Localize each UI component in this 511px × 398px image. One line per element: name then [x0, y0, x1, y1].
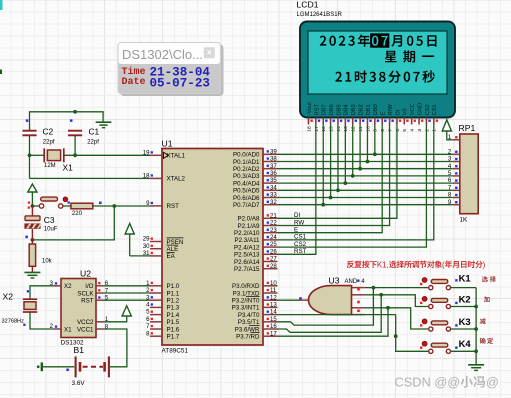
- svg-text:VCC1: VCC1: [77, 326, 94, 333]
- power arrow (reset circuit VCC): [28, 184, 37, 206]
- svg-text:LCD1: LCD1: [297, 0, 319, 10]
- svg-text:1K: 1K: [460, 216, 469, 223]
- svg-text:K1,: K1,: [377, 260, 389, 269]
- svg-text:VCC: VCC: [410, 103, 416, 115]
- pushbutton K3: [420, 316, 471, 331]
- node marker C3: [25, 236, 28, 239]
- wire LCD DI pin to P2.0 row: [278, 125, 397, 219]
- wire P3.7 net to K3 and gate input3: [278, 306, 429, 336]
- junction reset node: [31, 204, 35, 208]
- svg-text:P2.7/A15: P2.7/A15: [234, 266, 260, 273]
- svg-text:K3: K3: [459, 316, 471, 327]
- svg-text:Date: Date: [122, 77, 146, 88]
- wire RST feedback down-left: [32, 206, 114, 240]
- svg-text:16: 16: [321, 126, 327, 132]
- watermark: [395, 375, 499, 390]
- svg-text:CS1: CS1: [294, 234, 307, 241]
- junction crystal right: [73, 153, 77, 157]
- node marker C2: [26, 119, 29, 122]
- ground (key bus): [468, 364, 484, 366]
- svg-text:X1: X1: [63, 163, 74, 173]
- svg-text:CS2: CS2: [294, 241, 307, 248]
- svg-text:16: 16: [270, 323, 277, 330]
- svg-text:11: 11: [270, 287, 277, 294]
- svg-text:P3.2/INT0: P3.2/INT0: [232, 298, 260, 305]
- svg-text:DB5: DB5: [336, 104, 342, 115]
- wire LCD R/W pin to P2.1 row: [278, 125, 390, 226]
- svg-text:E: E: [381, 111, 387, 115]
- wire LCD CS1 pin to P2.3 row: [278, 125, 434, 240]
- svg-text:EA: EA: [167, 253, 176, 260]
- power arrow (RP1 common / LCD VCC): [442, 120, 453, 140]
- svg-text:11: 11: [358, 126, 364, 131]
- svg-text:AND: AND: [345, 279, 358, 285]
- svg-text:27: 27: [270, 256, 277, 263]
- svg-text:-Vout: -Vout: [307, 102, 313, 116]
- wire P3.5 net to K1 and gate input1: [278, 286, 429, 325]
- svg-text:DI: DI: [294, 212, 300, 219]
- pushbutton (reset): [32, 197, 71, 208]
- wire LCD E pin to P2.2 row: [278, 125, 383, 233]
- label K2 function: [484, 296, 490, 302]
- svg-text:K1: K1: [459, 272, 471, 283]
- label K3 function: [480, 318, 486, 324]
- U1 left pin stubs, numbers and names: [143, 149, 186, 340]
- node marker 220 right: [99, 202, 102, 205]
- svg-text:P0.3/AD3: P0.3/AD3: [233, 173, 260, 180]
- wire LCD RST pin to U1 P2.6 row (RST net): [278, 125, 316, 255]
- svg-text:36: 36: [270, 170, 277, 177]
- svg-text:RP1: RP1: [459, 123, 476, 133]
- svg-text:29: 29: [143, 236, 150, 243]
- crystal X2 32768Hz: [2, 286, 55, 329]
- node markers reset: [28, 201, 31, 208]
- svg-text:CS1: CS1: [432, 104, 438, 115]
- LCD screen text line1 2023-07-05: [320, 33, 437, 47]
- svg-text:21: 21: [270, 212, 277, 219]
- junction crystal left: [28, 153, 32, 157]
- microcontroller U1 AT89C51: [162, 138, 264, 354]
- svg-text:SCLK: SCLK: [77, 290, 94, 297]
- svg-text:38: 38: [270, 156, 277, 163]
- svg-text:VCC2: VCC2: [77, 319, 94, 326]
- AND gate U3 (4-input, mirrored): [300, 275, 365, 314]
- svg-text:P1.7: P1.7: [167, 334, 180, 341]
- svg-text:33: 33: [270, 192, 277, 199]
- label K4 function: [480, 338, 493, 344]
- svg-text:4: 4: [410, 129, 416, 132]
- svg-text:7: 7: [146, 323, 150, 330]
- svg-text:LGM12641BS1R: LGM12641BS1R: [297, 12, 343, 18]
- svg-text:31: 31: [143, 250, 150, 257]
- svg-text:P2.0/A8: P2.0/A8: [237, 216, 260, 223]
- svg-text:17: 17: [270, 330, 277, 337]
- svg-text:10uF: 10uF: [44, 226, 58, 232]
- svg-text:DI: DI: [395, 109, 401, 115]
- battery B1 3.6V: [37, 345, 109, 387]
- DS1302 clock popup window: [118, 43, 224, 97]
- pushbutton K1: [420, 272, 471, 289]
- svg-text:15: 15: [329, 126, 335, 132]
- wire battery to U2 VCC1: [104, 329, 127, 367]
- svg-text:P1.4: P1.4: [167, 312, 180, 319]
- svg-text:P2.6/A14: P2.6/A14: [234, 259, 260, 266]
- wire P3.4 net to K4 and gate input4: [278, 315, 429, 352]
- svg-text:P0.0/AD0: P0.0/AD0: [233, 152, 260, 159]
- svg-text:X2: X2: [64, 283, 72, 290]
- svg-text:XTAL2: XTAL2: [167, 176, 186, 183]
- label K1 function: [482, 276, 496, 282]
- svg-text:P1.2: P1.2: [167, 298, 180, 305]
- svg-text:22: 22: [270, 220, 277, 227]
- svg-text:C1: C1: [89, 126, 100, 136]
- svg-text:CS2: CS2: [425, 104, 431, 115]
- svg-text:P1.1: P1.1: [167, 290, 180, 297]
- U1 right pin stubs, numbers and names: [232, 148, 278, 340]
- wire key common bus to ground: [451, 288, 479, 365]
- svg-text:P0.7/AD7: P0.7/AD7: [233, 202, 260, 209]
- svg-text:B1: B1: [74, 345, 85, 355]
- svg-text:17: 17: [314, 126, 320, 132]
- svg-text:10: 10: [365, 126, 371, 132]
- svg-text:P1.3: P1.3: [167, 305, 180, 312]
- wire C1 bottom to XTAL1 rail: [74, 135, 76, 155]
- svg-text:DB0: DB0: [373, 104, 379, 115]
- svg-text:DB7: DB7: [322, 104, 328, 115]
- annotation text (press K1 to choose field): [347, 260, 486, 269]
- svg-text:DB1: DB1: [366, 104, 372, 115]
- svg-text:39: 39: [270, 148, 277, 155]
- capacitor C1 22pf: [68, 126, 100, 145]
- svg-text:2: 2: [424, 129, 430, 132]
- svg-text:P2.1/A9: P2.1/A9: [237, 223, 260, 230]
- U2 pin stubs and numbers: [50, 280, 109, 331]
- RP1 pin stubs and numbers: [448, 134, 460, 206]
- LCD LCD1 labels: [297, 0, 343, 18]
- svg-text:37: 37: [270, 163, 277, 170]
- svg-text:): ): [483, 260, 486, 269]
- svg-text:24: 24: [270, 234, 277, 241]
- power arrow (U2 VCC2): [104, 306, 132, 322]
- svg-text:18: 18: [306, 126, 312, 132]
- capacitor C2 22pf: [22, 126, 54, 145]
- wires LCD data pins DB7..DB0 down to P0 rows with junctions: [321, 125, 376, 207]
- svg-text:30: 30: [143, 243, 150, 250]
- svg-text:K4: K4: [459, 338, 472, 349]
- svg-text:DB6: DB6: [329, 104, 335, 115]
- svg-text:14: 14: [336, 126, 342, 132]
- svg-text:23: 23: [270, 227, 277, 234]
- crystal X1 12M: [30, 148, 151, 172]
- wire C2/C1 top rail to ground: [30, 112, 104, 131]
- svg-text:32768Hz: 32768Hz: [2, 319, 25, 325]
- capacitor C3 10uF (electrolytic): [24, 206, 57, 240]
- svg-text:P1.0: P1.0: [167, 283, 180, 290]
- node marker battery: [66, 369, 69, 372]
- svg-text:4: 4: [146, 302, 150, 309]
- wire U1 P3.2 to gate output: [278, 299, 301, 301]
- svg-text:DB2: DB2: [358, 104, 364, 115]
- svg-text:RST: RST: [81, 298, 94, 305]
- wire U2 I/O to U1 P1.0: [104, 285, 151, 287]
- node marker C1: [70, 119, 73, 122]
- net labels DI RW E CS1 CS2 RST: [294, 212, 307, 255]
- RTC U2 DS1302: [61, 268, 97, 346]
- svg-text:P2.3/A11: P2.3/A11: [235, 237, 261, 244]
- wire EA: [130, 255, 150, 257]
- svg-text:U2: U2: [80, 268, 91, 278]
- svg-text:1: 1: [432, 129, 438, 132]
- svg-text:22pf: 22pf: [87, 140, 99, 146]
- svg-text:5: 5: [146, 309, 150, 316]
- svg-text:X2: X2: [3, 292, 14, 302]
- svg-text:RST: RST: [167, 203, 180, 210]
- svg-text:(: (: [442, 260, 445, 269]
- svg-text:34: 34: [270, 184, 277, 191]
- svg-text:P0.5/AD5: P0.5/AD5: [233, 188, 260, 195]
- svg-text:P1.6: P1.6: [167, 326, 180, 333]
- svg-text:DB3: DB3: [351, 104, 357, 115]
- resistor pack RP1 1K: [459, 123, 479, 223]
- svg-text:X1: X1: [64, 326, 72, 333]
- svg-text:C3: C3: [44, 215, 55, 225]
- svg-text:12: 12: [351, 126, 357, 132]
- svg-text:RW: RW: [294, 219, 304, 226]
- svg-text:V0: V0: [403, 108, 409, 115]
- node markers X2: [23, 290, 29, 326]
- node marker P3.2 net: [299, 297, 302, 300]
- wire P3.6 net to K2 and gate input2: [278, 293, 429, 332]
- svg-text:P1.5: P1.5: [167, 319, 180, 326]
- junction C3 bottom node: [31, 238, 35, 242]
- svg-text:8: 8: [380, 129, 386, 132]
- svg-text:32: 32: [270, 199, 277, 206]
- svg-text:P0.1/AD1: P0.1/AD1: [233, 159, 260, 166]
- svg-text:DS1302\Clo...: DS1302\Clo...: [122, 47, 203, 62]
- svg-text:P0.6/AD6: P0.6/AD6: [233, 195, 260, 202]
- wire 220 to RST pin: [93, 205, 150, 207]
- junction RST net: [112, 204, 116, 208]
- svg-text:P3.4/T0: P3.4/T0: [238, 312, 260, 319]
- wire XTAL2 rail: [30, 177, 151, 179]
- svg-text:18: 18: [143, 173, 150, 180]
- wire U2 RST to U1 P1.2: [104, 299, 151, 301]
- svg-text:P3.3/INT1: P3.3/INT1: [232, 305, 260, 312]
- svg-text:XTAL1: XTAL1: [167, 153, 186, 160]
- svg-text:CSDN @@: CSDN @@: [395, 375, 461, 390]
- resistor 220: [71, 203, 93, 217]
- wire U2 SCLK to U1 P1.1: [104, 292, 151, 294]
- svg-text:GND: GND: [417, 103, 423, 116]
- svg-text:28: 28: [270, 263, 277, 270]
- screen-edge artifact top-left: [0, 0, 3, 10]
- svg-text:13: 13: [343, 126, 349, 132]
- LCD screen text line3 time: [335, 70, 434, 82]
- svg-text:6: 6: [146, 316, 150, 323]
- ground (under 10k): [24, 271, 40, 273]
- LCD screen text line2 weekday: [385, 50, 434, 62]
- svg-text:K2: K2: [459, 293, 471, 304]
- svg-text:5: 5: [402, 129, 408, 132]
- svg-text:P2.5/A13: P2.5/A13: [234, 252, 260, 259]
- svg-text:R/W: R/W: [388, 104, 394, 116]
- svg-text:35: 35: [270, 177, 277, 184]
- LCD LCD1 LGM12641BS1R module body: [300, 22, 455, 118]
- svg-text:I/O: I/O: [85, 283, 93, 290]
- svg-text:P0.4/AD4: P0.4/AD4: [233, 180, 260, 187]
- ground (oscillator rail): [96, 122, 112, 128]
- svg-text:10k: 10k: [42, 259, 53, 265]
- svg-text:E: E: [294, 227, 298, 234]
- svg-text:15: 15: [270, 316, 277, 323]
- pushbutton K2: [420, 293, 471, 308]
- svg-text:13: 13: [270, 302, 277, 309]
- svg-text:P2.4/A12: P2.4/A12: [234, 244, 260, 251]
- svg-text:P3.7/RD: P3.7/RD: [236, 334, 260, 341]
- svg-text:25: 25: [270, 241, 277, 248]
- svg-text:12: 12: [270, 294, 277, 301]
- svg-text:RST: RST: [314, 103, 320, 115]
- svg-text:RST: RST: [294, 248, 307, 255]
- svg-text:×: ×: [207, 48, 212, 58]
- svg-text:P2.2/A10: P2.2/A10: [234, 230, 260, 237]
- svg-text:U1: U1: [162, 138, 173, 148]
- svg-text:C2: C2: [43, 126, 54, 136]
- wire C2 bottom to XTAL2 rail: [29, 135, 31, 178]
- svg-text:14: 14: [270, 309, 277, 316]
- svg-text:10: 10: [270, 280, 277, 287]
- svg-text:05-07-23: 05-07-23: [150, 76, 210, 90]
- resistor 10k: [29, 240, 52, 272]
- svg-text:U3: U3: [329, 275, 340, 285]
- svg-text:7: 7: [387, 129, 393, 132]
- svg-text:19: 19: [143, 149, 150, 156]
- svg-text:22pf: 22pf: [43, 140, 55, 146]
- svg-text:9: 9: [373, 129, 379, 132]
- svg-text:26: 26: [270, 248, 277, 255]
- junction C1 top: [73, 110, 77, 114]
- svg-text:4: 4: [361, 279, 365, 285]
- svg-text:P0.2/AD2: P0.2/AD2: [233, 166, 260, 173]
- wire LCD CS2 pin to P2.4 row: [278, 125, 427, 248]
- svg-text:220: 220: [72, 211, 83, 217]
- svg-text:DB4: DB4: [344, 104, 350, 115]
- svg-text:AT89C51: AT89C51: [162, 347, 189, 354]
- svg-text:@: @: [486, 375, 499, 390]
- pushbutton K4: [420, 338, 471, 353]
- LCD pin name strip: [307, 102, 438, 116]
- svg-text:3.6V: 3.6V: [72, 380, 86, 387]
- power arrow (EA pin): [125, 224, 134, 256]
- svg-text:12M: 12M: [44, 163, 56, 169]
- svg-text:3: 3: [417, 129, 423, 132]
- svg-text:6: 6: [395, 129, 401, 132]
- LCD pin stubs and numbers: [306, 118, 438, 132]
- svg-text:8: 8: [146, 330, 150, 337]
- screen-edge artifact left: [0, 70, 2, 75]
- svg-text:P3.0/RXD: P3.0/RXD: [232, 283, 260, 290]
- wire P0 bus rows to RP1: [278, 154, 453, 204]
